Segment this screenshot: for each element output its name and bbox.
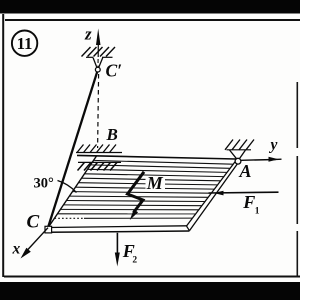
svg-text:30°: 30°: [34, 176, 55, 192]
pin circle C': [95, 67, 100, 72]
svg-text:C′: C′: [106, 61, 123, 81]
svg-text:A: A: [239, 161, 252, 181]
dashed vertical line C' to B: [98, 74, 99, 148]
ceiling hatching at A: [225, 140, 254, 150]
plate left edge CB: [48, 156, 96, 228]
plate top edge: [77, 155, 236, 159]
left frame rule: [2, 14, 4, 277]
top frame rule: [5, 19, 300, 21]
rod C'C: [48, 72, 97, 227]
svg-text:y: y: [269, 137, 278, 154]
label M: [146, 176, 166, 191]
force F1: [209, 191, 279, 217]
svg-text:z: z: [84, 25, 92, 44]
plate surface hatching: [54, 160, 233, 218]
axis z: [84, 25, 101, 67]
pin link triangle at A: [230, 150, 246, 159]
moment M zigzag arrow: [128, 172, 145, 220]
svg-text:B: B: [106, 125, 118, 144]
svg-text:11: 11: [17, 34, 33, 53]
plate right edge outer: [190, 162, 239, 231]
bottom frame rule: [4, 276, 300, 278]
svg-text:C: C: [27, 212, 40, 233]
right frame rule: [296, 82, 298, 277]
problem number badge 11: [12, 31, 37, 56]
wall hatching above B: [76, 145, 122, 153]
angle arc 30: [58, 181, 77, 193]
plate right edge inner: [187, 161, 237, 227]
plate bottom edge inner: [48, 226, 186, 228]
bottom black bar: [0, 282, 300, 300]
plate bottom edge outer: [48, 231, 190, 232]
plate corner cap bottom right: [187, 226, 190, 231]
pin link triangle at C': [93, 58, 103, 68]
wall hatching below B: [78, 162, 122, 170]
force F2: [115, 233, 138, 267]
pin circle A: [235, 158, 241, 164]
svg-text:x: x: [12, 241, 21, 258]
svg-text:M: M: [146, 173, 164, 193]
axis x: [12, 228, 49, 259]
top black bar: [0, 0, 300, 14]
axis y: [241, 137, 282, 162]
ceiling hatching at C': [82, 47, 116, 57]
corner square at C: [45, 226, 52, 233]
